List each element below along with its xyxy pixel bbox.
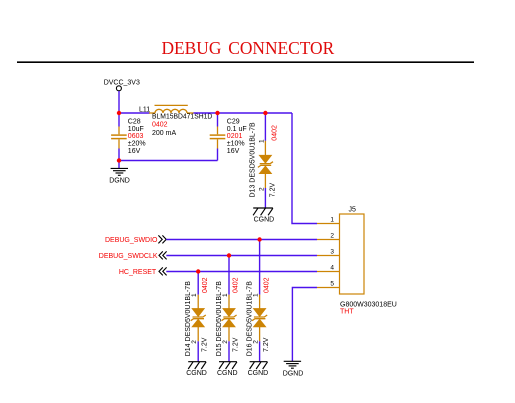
svg-text:0603: 0603 (128, 133, 144, 140)
svg-text:DEBUG_SWDIO: DEBUG_SWDIO (105, 237, 158, 244)
junction: SWDIO / D16 (257, 237, 261, 241)
svg-text:2: 2 (191, 340, 198, 344)
wire: C28 bottom to node B (118, 149, 120, 161)
svg-text:0402: 0402 (152, 121, 168, 128)
svg-text:J5: J5 (349, 207, 357, 214)
svg-text:5: 5 (330, 280, 334, 287)
svg-text:D14 DESD5V0U1BL-7B: D14 DESD5V0U1BL-7B (185, 281, 192, 357)
junction: SWDCLK / D15 (227, 253, 231, 257)
svg-text:0402: 0402 (233, 277, 240, 293)
junction node B (C28 bottom / C29 bottom / DGND) (117, 158, 121, 162)
svg-text:±10%: ±10% (227, 141, 245, 148)
diode D16 (252, 295, 267, 342)
svg-text:4: 4 (330, 264, 334, 271)
net port HC_RESET (119, 267, 167, 276)
svg-text:CGND: CGND (248, 370, 269, 377)
svg-text:1: 1 (222, 293, 229, 297)
wire: L11 right lead to corner above J5 pin1 (194, 112, 293, 114)
wire: top rail to D13 (264, 113, 266, 141)
svg-text:D15 DESD5V0U1BL-7B: D15 DESD5V0U1BL-7B (216, 281, 223, 357)
wire: D16 to CGND (259, 341, 261, 361)
inductor L11 (149, 105, 194, 113)
svg-text:1: 1 (330, 216, 334, 223)
diode D13 (258, 141, 273, 188)
sheet underline (17, 61, 474, 63)
wire: HC_RESET junction down to D14 (197, 272, 199, 295)
svg-text:7.2V: 7.2V (202, 337, 209, 352)
svg-text:2: 2 (258, 187, 265, 191)
wire: DEBUG_SWDIO to J5 pin 2 (166, 239, 317, 241)
svg-text:CGND: CGND (254, 216, 275, 223)
connector J5 body (340, 214, 365, 294)
wire: node B to C29 bottom (119, 160, 218, 162)
svg-text:10uF: 10uF (128, 126, 144, 133)
junction node A (DVCC rail / C28 / L11) (117, 111, 121, 115)
capacitor C28 (111, 127, 127, 149)
wire: DEBUG_SWDCLK to J5 pin 3 (166, 255, 317, 257)
wire: SWDIO junction down to D16 (259, 240, 261, 295)
wire: DVCC_3V3 down to node A (118, 91, 120, 113)
junction: top rail / C29 (215, 111, 219, 115)
ground DGND (bottom right) (284, 361, 301, 368)
ground CGND under D16 (250, 362, 268, 369)
svg-text:0402: 0402 (272, 125, 279, 141)
svg-text:THT: THT (340, 309, 354, 316)
svg-text:L11: L11 (139, 106, 150, 113)
svg-text:DEBUG CONNECTOR: DEBUG CONNECTOR (162, 38, 335, 58)
ground CGND under D14 (188, 362, 206, 369)
wire: node A to C28 top (118, 113, 120, 127)
net port DEBUG_SWDCLK (99, 251, 167, 260)
power port DVCC_3V3 (104, 79, 140, 90)
diode D15 (222, 295, 237, 342)
wire: J5 pin 5 to DGND corner (292, 288, 317, 362)
wire: HC_RESET to J5 pin 4 (166, 271, 317, 273)
svg-text:7.2V: 7.2V (232, 337, 239, 352)
svg-text:HC_RESET: HC_RESET (119, 269, 157, 276)
svg-text:CGND: CGND (186, 370, 207, 377)
svg-text:DGND: DGND (109, 177, 130, 184)
wire: C29 bottom to bottom rail (217, 149, 219, 161)
svg-text:DVCC_3V3: DVCC_3V3 (104, 79, 140, 86)
ground CGND under D15 (219, 362, 237, 369)
ground CGND under D13 (253, 208, 273, 215)
wire: SWDCLK junction down to D15 (228, 256, 230, 295)
diode D14 (191, 295, 206, 342)
svg-text:7.2V: 7.2V (263, 337, 270, 352)
J5 pin 5 stub (317, 287, 340, 289)
wire: node A to L11 left lead (119, 112, 150, 114)
wire: D14 to CGND (197, 341, 199, 361)
svg-text:C28: C28 (128, 118, 141, 125)
svg-text:CGND: CGND (217, 370, 238, 377)
svg-text:0402: 0402 (202, 277, 209, 293)
J5 pin 3 stub (317, 255, 340, 257)
J5 pin 4 stub (317, 271, 340, 273)
junction: top rail / D13 (263, 111, 267, 115)
wire: D15 to CGND (228, 341, 230, 361)
svg-text:D13 DESD5V0U1BL-7B: D13 DESD5V0U1BL-7B (249, 122, 256, 198)
net port DEBUG_SWDIO (105, 235, 166, 244)
svg-text:1: 1 (253, 293, 260, 297)
svg-text:7.2V: 7.2V (270, 182, 277, 197)
svg-text:±20%: ±20% (128, 141, 146, 148)
svg-text:0402: 0402 (263, 277, 270, 293)
svg-text:DGND: DGND (283, 370, 304, 377)
svg-text:0.1 uF: 0.1 uF (227, 126, 247, 133)
junction: HC_RESET / D14 (196, 269, 200, 273)
svg-text:C29: C29 (227, 118, 240, 125)
svg-text:1: 1 (191, 293, 198, 297)
svg-text:1: 1 (258, 139, 265, 143)
capacitor C29 (210, 127, 226, 149)
svg-text:16V: 16V (128, 148, 141, 155)
svg-text:200 mA: 200 mA (152, 130, 176, 137)
ground DGND (top left) (111, 168, 128, 175)
svg-text:3: 3 (330, 248, 334, 255)
svg-text:16V: 16V (227, 148, 240, 155)
svg-text:2: 2 (330, 232, 334, 239)
svg-text:2: 2 (222, 340, 229, 344)
wire: D13 to CGND (264, 188, 266, 208)
J5 pin 1 stub (317, 223, 340, 225)
J5 pin 2 stub (317, 239, 340, 241)
svg-text:2: 2 (253, 340, 260, 344)
svg-text:0201: 0201 (227, 133, 243, 140)
svg-text:DEBUG_SWDCLK: DEBUG_SWDCLK (99, 253, 158, 260)
wire: top rail to C29 top (217, 113, 219, 127)
svg-text:D16 DESD5V0U1BL-7B: D16 DESD5V0U1BL-7B (247, 281, 254, 357)
wire: node B to DGND (118, 161, 120, 169)
svg-text:BLM15BD471SH1D: BLM15BD471SH1D (152, 114, 212, 121)
wire: corner from top rail down to J5 pin 1 (292, 113, 317, 224)
